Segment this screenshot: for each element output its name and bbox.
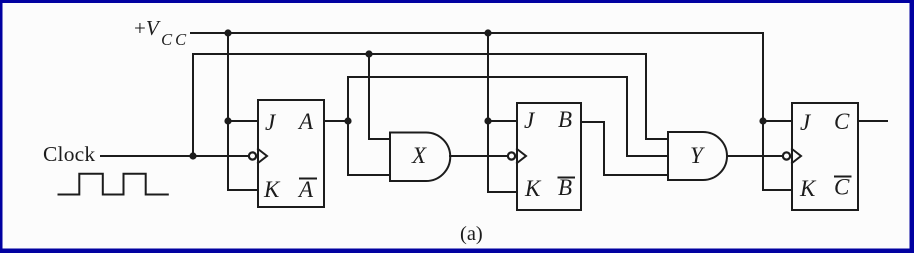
svg-text:C: C	[834, 109, 850, 134]
svg-text:J: J	[265, 110, 277, 135]
svg-text:J: J	[800, 110, 812, 135]
svg-text:K: K	[524, 176, 542, 201]
svg-text:K: K	[799, 176, 817, 201]
svg-text:(a): (a)	[460, 223, 483, 245]
svg-text:J: J	[524, 108, 536, 133]
svg-text:C: C	[834, 175, 850, 200]
svg-text:X: X	[411, 143, 427, 168]
svg-text:Clock: Clock	[43, 142, 95, 166]
svg-text:K: K	[263, 177, 281, 202]
svg-text:Y: Y	[690, 143, 705, 168]
svg-text:B: B	[558, 107, 572, 132]
svg-text:B: B	[558, 175, 572, 200]
svg-text:A: A	[297, 109, 314, 134]
svg-text:A: A	[297, 177, 314, 202]
